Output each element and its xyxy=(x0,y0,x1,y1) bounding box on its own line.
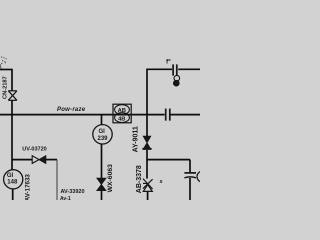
diode CN-2187 xyxy=(8,91,17,101)
wire xyxy=(0,69,13,71)
wire xyxy=(189,178,191,200)
wire xyxy=(46,159,57,161)
svg-text:ξ: ξ xyxy=(0,64,2,69)
svg-text:WX-6063: WX-6063 xyxy=(107,164,114,193)
wire xyxy=(146,68,172,70)
capacitor C2 (on rail) xyxy=(166,109,170,121)
svg-text:Av-1: Av-1 xyxy=(60,196,71,200)
wire xyxy=(146,69,148,136)
wire xyxy=(146,150,148,179)
wire xyxy=(178,68,200,70)
wire xyxy=(189,160,191,172)
svg-text:CN-2187: CN-2187 xyxy=(3,76,9,99)
capacitor C1 (top, f deg) xyxy=(173,64,177,75)
diode AY-9011 xyxy=(142,136,151,150)
node right-edge circle xyxy=(197,171,208,182)
svg-text:GI: GI xyxy=(7,173,14,179)
stray marks top-left xyxy=(1,57,7,65)
svg-text:4B: 4B xyxy=(118,116,125,122)
indicator below C1 xyxy=(173,75,180,87)
svg-text:239: 239 xyxy=(97,136,108,142)
wire xyxy=(11,100,13,170)
svg-text:f°: f° xyxy=(166,58,171,66)
svg-text:AV-17633: AV-17633 xyxy=(24,174,31,200)
thyristor AB-3378 xyxy=(143,179,153,192)
wire xyxy=(146,159,190,161)
wire xyxy=(12,159,32,161)
wire xyxy=(171,114,201,116)
wire xyxy=(12,189,14,200)
svg-text:Pow-raze: Pow-raze xyxy=(57,107,86,113)
svg-text:AB: AB xyxy=(118,108,126,114)
wire xyxy=(147,191,149,200)
svg-text:s: s xyxy=(160,179,163,185)
wire xyxy=(101,115,103,125)
wire xyxy=(11,70,13,91)
svg-text:AV-33920: AV-33920 xyxy=(60,189,84,195)
transistor GI-148 xyxy=(4,170,23,189)
wire xyxy=(113,114,165,116)
svg-text:UV-03720: UV-03720 xyxy=(22,147,46,153)
wire xyxy=(0,114,113,116)
capacitor C3 (polarized, right) xyxy=(184,173,196,178)
wire xyxy=(56,160,58,200)
svg-text:148: 148 xyxy=(7,179,18,185)
svg-text:GI: GI xyxy=(99,129,106,135)
meter U1 AB/4B xyxy=(113,104,131,123)
diode UV-03720 xyxy=(32,156,46,164)
svg-text:AB-3378: AB-3378 xyxy=(136,165,143,193)
transistor GI-239 xyxy=(93,125,112,144)
diode WX-6063 xyxy=(97,178,106,190)
wire xyxy=(101,191,103,200)
wire xyxy=(101,144,103,178)
svg-text:AY-9011: AY-9011 xyxy=(132,126,139,152)
